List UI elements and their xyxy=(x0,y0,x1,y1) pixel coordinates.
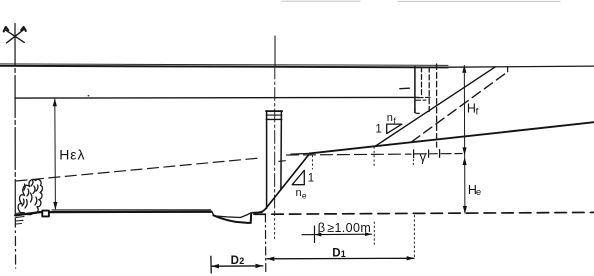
station dash-dot vertical line xyxy=(14,24,17,269)
dimension Hf / He vertical xyxy=(463,66,466,214)
square marker on bed xyxy=(42,211,49,217)
abutment hidden edge 1 xyxy=(421,67,423,97)
svg-text:≥1.00m: ≥1.00m xyxy=(327,221,371,235)
dimension H-el vertical xyxy=(54,99,57,209)
svg-text:1: 1 xyxy=(375,123,381,135)
pier centerline xyxy=(274,36,276,242)
river bed line xyxy=(15,212,211,216)
svg-text:e: e xyxy=(476,187,481,198)
survey monument symbol (crossed hammers) xyxy=(4,27,26,43)
dotted extension below slope toe xyxy=(373,147,375,168)
abutment hidden edge 2 xyxy=(428,67,430,112)
svg-text:1: 1 xyxy=(341,249,346,259)
embankment slope n_e xyxy=(253,153,310,212)
tick joining dashed slope to road line xyxy=(507,67,509,72)
svg-text:D: D xyxy=(231,255,239,267)
river bed top thin line xyxy=(52,209,211,211)
dimension beta line xyxy=(302,226,372,243)
dimension D1 line xyxy=(267,257,414,260)
slope triangle n_f xyxy=(387,124,402,134)
svg-text:γ: γ xyxy=(420,150,427,164)
D2 left tick xyxy=(210,256,212,273)
deck top thin line xyxy=(0,64,448,66)
svg-text:e: e xyxy=(302,190,307,200)
svg-text:n: n xyxy=(387,112,393,124)
projected bed dashed line right xyxy=(254,212,594,214)
dimension D2 line xyxy=(212,265,263,267)
svg-text:H: H xyxy=(467,102,476,116)
scour trench top edge xyxy=(212,211,263,217)
berm edge behind pier xyxy=(291,152,310,155)
tick on pier right edge xyxy=(279,160,285,163)
separator dash-dot between D2 and D1 xyxy=(264,214,266,275)
abutment front face xyxy=(414,67,416,113)
deck bottom thick line xyxy=(0,66,448,68)
svg-text:D: D xyxy=(332,248,340,260)
scour trench bottom edge xyxy=(213,213,251,223)
scan artifact top edge xyxy=(282,0,560,2)
small dot on soffit line xyxy=(88,95,90,97)
tick left of abutment xyxy=(400,87,410,90)
gamma mark ticks xyxy=(414,150,440,158)
fill slope n_f solid xyxy=(375,67,496,147)
abutment hidden step dashes xyxy=(416,97,430,100)
dotted drop below gamma tick xyxy=(412,160,414,167)
deck soffit line xyxy=(15,96,419,99)
water level dashed line left xyxy=(16,158,262,181)
bush scribble on left bank xyxy=(18,179,42,214)
svg-text:f: f xyxy=(476,106,479,117)
beta right dotted extension xyxy=(373,222,375,245)
svg-text:2: 2 xyxy=(239,256,244,266)
svg-text:1: 1 xyxy=(308,172,314,184)
svg-text:β: β xyxy=(318,220,325,235)
ground surface line xyxy=(310,122,594,153)
slope triangle n_e xyxy=(292,170,304,184)
svg-text:n: n xyxy=(296,187,302,199)
reference level dashed line right xyxy=(287,154,463,156)
pier P xyxy=(266,111,282,208)
D1 right dotted extension xyxy=(413,216,415,258)
approach road line right xyxy=(448,66,594,67)
dotted extension below slope break xyxy=(312,156,314,170)
abutment hidden edge 3 xyxy=(436,64,438,147)
fill slope n_f dashed (far side) xyxy=(412,72,508,142)
ground hatch below bush xyxy=(16,213,25,225)
abutment foot hook xyxy=(415,108,419,113)
svg-text:Hελ: Hελ xyxy=(59,146,85,162)
